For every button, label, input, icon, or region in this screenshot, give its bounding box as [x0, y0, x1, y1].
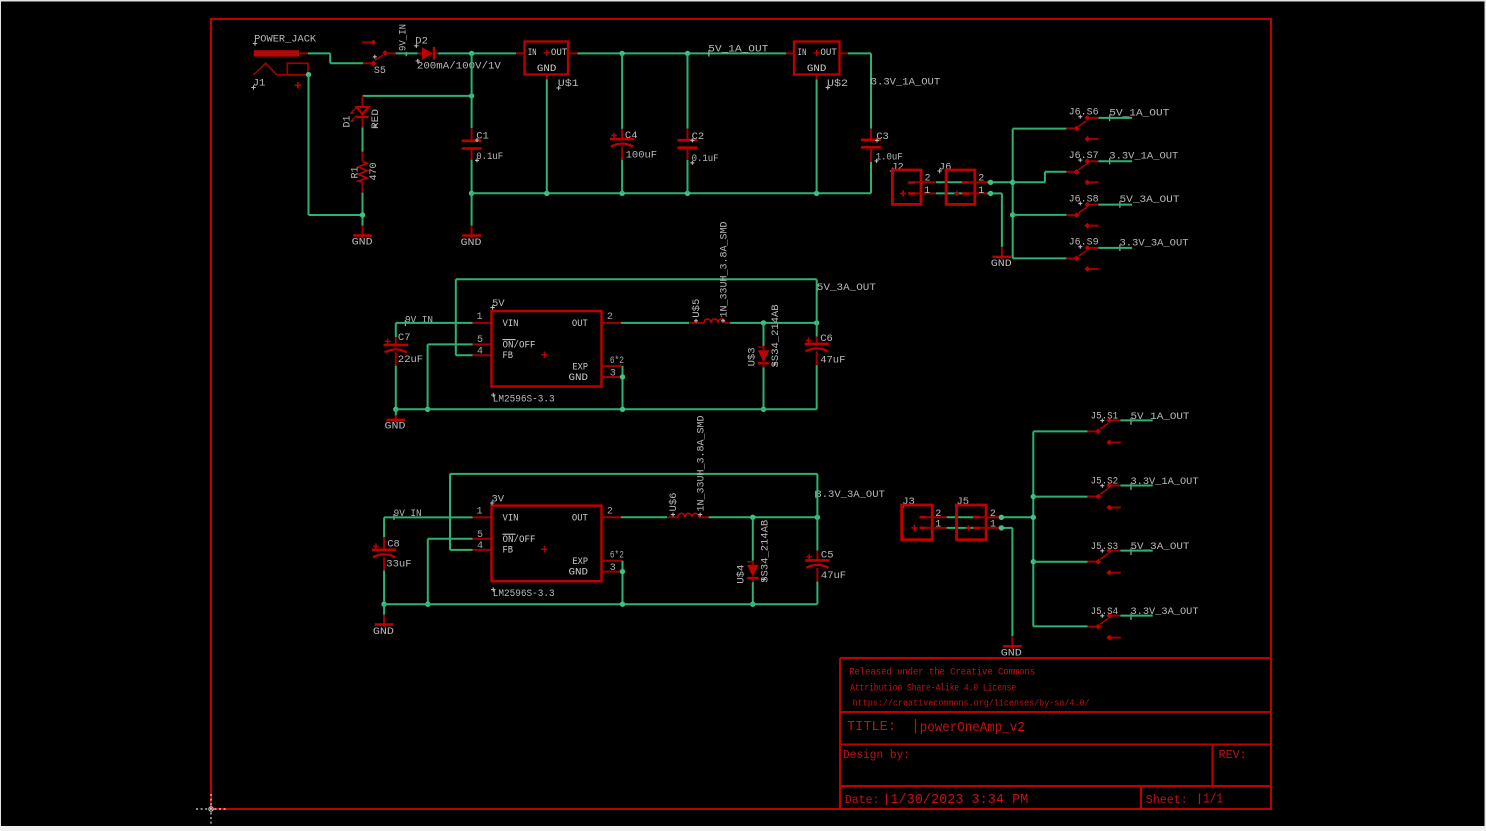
wire U$2 OUT to C3 branch [848, 52, 871, 54]
switch J6.S8 [1085, 202, 1091, 208]
junction rail at C1 [469, 191, 474, 196]
connector J3 box [902, 505, 933, 540]
connector J5 plus mark [966, 525, 971, 530]
wire U$1 GND column [546, 80, 548, 194]
svg-text:0.1uF: 0.1uF [476, 151, 503, 163]
wire U$2 GND column [816, 80, 818, 194]
svg-text:Sheet:: Sheet: [1146, 793, 1188, 807]
wire C8 to block2 ground rail [383, 570, 385, 604]
wire bus to S2 [1033, 496, 1087, 498]
svg-text:S5: S5 [374, 66, 386, 77]
connector J1 spring contact [254, 63, 307, 75]
svg-text:100uF: 100uF [626, 149, 658, 161]
wire U$1 OUT to U$2 IN [578, 52, 787, 54]
svg-text:R1: R1 [351, 166, 362, 178]
svg-text:2: 2 [607, 312, 613, 323]
switch J5.S2 [1106, 483, 1112, 489]
wire R1 to ground [362, 193, 364, 226]
wire block1 input cap branch [395, 323, 397, 337]
wire J5.S2 common [1120, 485, 1152, 487]
junction bus at S3 wire [1031, 559, 1036, 564]
svg-text:4: 4 [477, 346, 483, 357]
wire bus to S9 [1013, 257, 1067, 259]
svg-text:1: 1 [990, 519, 996, 530]
svg-text:IN: IN [528, 48, 537, 59]
svg-text:47uF: 47uF [821, 570, 846, 582]
svg-text:REV:: REV: [1219, 748, 1247, 762]
connector J2 box [892, 170, 921, 204]
junction J5 pin1 [999, 525, 1004, 530]
svg-text:1/30/2023 3:34 PM: 1/30/2023 3:34 PM [890, 793, 1028, 808]
svg-text:5V: 5V [492, 298, 505, 310]
svg-text:POWER_JACK: POWER_JACK [254, 34, 317, 46]
svg-text:1: 1 [477, 506, 483, 517]
junction top rail at C1 [469, 51, 474, 56]
wire block2 EXP to GND pin [622, 561, 624, 605]
wire block2 ON/OFF to ground [428, 538, 473, 540]
wire 9V_IN to U$7 VIN [396, 322, 473, 324]
wire LED branch [363, 95, 472, 97]
junction bus at J6 pin2 [1010, 180, 1015, 185]
diode U$4 branch wire [752, 517, 754, 560]
window edge top [0, 0, 1486, 2]
switch J6.S7 [1085, 158, 1091, 164]
svg-text:GND: GND [537, 64, 557, 75]
wire C1 column [471, 53, 473, 128]
junction top rail at C4 [619, 51, 624, 56]
wire 9V_IN to U$8 VIN [384, 516, 472, 518]
regulator U$2 box [794, 42, 840, 75]
ground GND block2 [383, 615, 385, 628]
resistor R1 [362, 152, 364, 161]
window edge right [1485, 0, 1486, 831]
capacitor C8 [383, 537, 385, 550]
switch J6.S9 [1085, 245, 1091, 251]
svg-text:D1: D1 [342, 115, 353, 127]
wire block2 ground rail [384, 603, 817, 605]
wire bus to S4 [1033, 625, 1087, 627]
junction bus at S2 wire [1031, 494, 1036, 499]
inductor U$5 [689, 322, 704, 324]
wire J5.S4 common [1120, 615, 1152, 617]
regulator U$7 LM2596S-3.3 box block1 [492, 311, 602, 387]
wire C6 to block1 rail [816, 365, 818, 409]
svg-text:0.1uF: 0.1uF [692, 153, 719, 165]
svg-text:FB: FB [503, 350, 514, 362]
wire J6.S8 common [1098, 204, 1132, 206]
wire bus to S7 [1013, 181, 1045, 183]
svg-text:2: 2 [935, 509, 941, 520]
bus wire top switch bank [1012, 129, 1014, 259]
svg-text:IN: IN [798, 48, 807, 59]
wire diode U$4 to block2 rail [752, 582, 754, 604]
junction block1 rail at EXP column [620, 407, 625, 412]
junction J6 pin2 [988, 180, 993, 185]
wire J6 pin1 to ground [987, 192, 1002, 194]
svg-text:OUT: OUT [572, 512, 588, 524]
svg-text:1: 1 [935, 519, 941, 530]
wire C7 to block1 ground rail [395, 366, 397, 410]
wire block2 FB sense [449, 474, 451, 550]
title value powerOneAmp_v2 [915, 719, 917, 733]
wire LED to R1 [362, 128, 364, 152]
wire J6.S6 common [1098, 117, 1132, 119]
svg-text:22uF: 22uF [398, 354, 423, 366]
svg-text:5V_1A_OUT: 5V_1A_OUT [708, 43, 768, 55]
wire C5 to block2 rail [816, 582, 818, 605]
regulator U$1 origin cross [544, 50, 550, 56]
junction block2 rail at ON/OFF [425, 602, 430, 607]
svg-text:C3: C3 [876, 131, 889, 143]
block2 EXP GND pin stubs [602, 560, 623, 562]
wire J5 pin1 to ground [999, 527, 1012, 529]
svg-text:1N_33UH_3.8A_SMD: 1N_33UH_3.8A_SMD [720, 222, 731, 318]
svg-text:Design by:: Design by: [843, 748, 910, 762]
wire C1 to rail [471, 160, 473, 194]
title block outline [840, 658, 1270, 808]
wire C4 to rail [621, 160, 623, 194]
svg-text:OUT: OUT [572, 318, 588, 330]
wire J5.S3 common [1120, 550, 1152, 552]
drawing frame [211, 19, 1271, 809]
svg-text:U$6: U$6 [668, 493, 680, 512]
junction J5 pin2 [999, 515, 1004, 520]
junction top rail at C2 [685, 51, 690, 56]
connector J1 barrel [254, 50, 299, 56]
svg-text:OUT: OUT [551, 48, 568, 59]
svg-text:J5.S3: J5.S3 [1091, 542, 1119, 553]
wire J6.S9 common [1098, 247, 1132, 249]
led D1 arrows [351, 108, 357, 121]
wire J6.S7 common [1098, 160, 1132, 162]
capacitor C4 [621, 129, 623, 139]
junction rail at U$1 GND [544, 191, 549, 196]
date value [886, 794, 888, 806]
svg-text:C5: C5 [821, 550, 834, 562]
ground GND at J6 [1001, 247, 1003, 260]
svg-text:2: 2 [978, 174, 984, 185]
wire jack plus leg [308, 75, 310, 215]
svg-text:LM2596S-3.3: LM2596S-3.3 [493, 393, 555, 405]
wire C2 to rail [687, 160, 689, 193]
svg-text:5V_3A_OUT: 5V_3A_OUT [817, 282, 876, 294]
switch J5.S3 [1106, 548, 1112, 554]
diode D2 [418, 52, 422, 54]
connector J3 pin 1 [919, 527, 926, 530]
window edge bottom strip [0, 826, 1486, 831]
svg-text:1: 1 [477, 312, 483, 323]
svg-text:6*2: 6*2 [610, 355, 624, 367]
svg-text:GND: GND [461, 238, 482, 249]
svg-text:J5.S4: J5.S4 [1091, 607, 1119, 618]
junction R1 ground [360, 212, 365, 217]
wire block2 feedback top rail [450, 473, 817, 475]
block2 OUT wire to inductor [602, 516, 622, 518]
wire C1 to ground [471, 193, 473, 225]
svg-text:1N_33UH_3.8A_SMD: 1N_33UH_3.8A_SMD [697, 416, 708, 512]
connector J6 box [946, 170, 975, 204]
connector J2 pin 1 [908, 192, 915, 195]
wire J5.S1 common [1120, 419, 1152, 421]
junction block1 GND pin [620, 374, 625, 379]
wire S5 to D2 [396, 52, 418, 54]
svg-text:Attribution Share-Alike 4.0 Li: Attribution Share-Alike 4.0 License [850, 682, 1016, 694]
junction block1 diode [761, 320, 766, 325]
svg-text:200mA/100V/1V: 200mA/100V/1V [417, 60, 502, 72]
junction at J1 output [306, 72, 311, 77]
svg-text:TITLE:: TITLE: [847, 719, 896, 735]
inductor U$6 [667, 516, 678, 518]
svg-text:J6.S6: J6.S6 [1069, 108, 1099, 119]
svg-text:U$2: U$2 [827, 78, 848, 90]
svg-text:470: 470 [369, 162, 380, 180]
wire jack to S5 [308, 52, 330, 54]
junction rail at C4 [619, 191, 624, 196]
junction bus at J5 pin2 [1031, 515, 1036, 520]
svg-text:GND: GND [991, 259, 1012, 270]
svg-text:U$1: U$1 [558, 78, 579, 90]
svg-text:VIN: VIN [503, 318, 519, 330]
svg-text:LM2596S-3.3: LM2596S-3.3 [493, 588, 555, 600]
svg-text:powerOneAmp_v2: powerOneAmp_v2 [920, 721, 1025, 736]
svg-text:J5.S2: J5.S2 [1091, 477, 1119, 488]
svg-text:GND: GND [352, 238, 373, 249]
ground GND under C1 [471, 226, 473, 238]
wire J2 to J6 pin2 [936, 181, 962, 183]
connector J6 plus mark [954, 191, 959, 196]
window edge left [0, 0, 1, 831]
diode U$3 branch wire [763, 323, 765, 346]
svg-text:J6.S9: J6.S9 [1069, 238, 1099, 249]
svg-text:3.3V_1A_OUT: 3.3V_1A_OUT [871, 77, 941, 89]
svg-text:6*2: 6*2 [610, 549, 624, 561]
regulator U$1 box [525, 42, 569, 75]
ground GND at J5 [1011, 636, 1013, 649]
wire J5 pin2 to bus [999, 516, 1033, 518]
junction rail at C2 [685, 191, 690, 196]
svg-text:Released under the Creative Co: Released under the Creative Commons [849, 667, 1035, 679]
wire block1 EXP to GND pin [622, 366, 624, 409]
connector J5 pin 1 [973, 527, 980, 530]
wire inductor to output node block2 [709, 516, 818, 518]
junction block2 GND pin [620, 569, 625, 574]
svg-text:GND: GND [569, 567, 589, 579]
wire block1 feedback top rail [456, 278, 817, 280]
ground GND under R1 [362, 226, 364, 238]
switch J5.S4 [1106, 613, 1112, 619]
ground GND block1 [395, 415, 397, 422]
svg-text:J6.S8: J6.S8 [1069, 194, 1099, 205]
svg-text:2: 2 [607, 506, 613, 517]
connector J1 plus mark [295, 82, 301, 88]
wire block2 input cap branch [383, 517, 385, 537]
svg-text:C8: C8 [387, 538, 400, 550]
wire bus to S1 [1033, 430, 1087, 432]
capacitor C5 [816, 551, 818, 561]
connector J3 plus mark [911, 525, 917, 531]
svg-text:3V: 3V [492, 493, 505, 505]
svg-text:U$3: U$3 [746, 347, 758, 366]
svg-text:SS34_214AB: SS34_214AB [760, 520, 771, 583]
switch S5 [362, 41, 371, 43]
sheet value [1199, 794, 1201, 805]
wire C4 column [621, 53, 623, 128]
junction J6 pin1 [988, 191, 993, 196]
svg-text:Date:: Date: [845, 793, 880, 807]
wire J3 to J5 pin2 [947, 516, 974, 518]
svg-text:GND: GND [373, 627, 394, 638]
svg-text:33uF: 33uF [386, 559, 411, 571]
wire ground rail [472, 192, 871, 194]
svg-text:https://creativecommons.org/li: https://creativecommons.org/licenses/by-… [853, 697, 1090, 708]
wire bus to S6 [1013, 128, 1067, 130]
wire D2 to U$1 IN [438, 52, 516, 54]
wire bus to S3 [1033, 561, 1087, 563]
connector J6 pin 2 [962, 181, 969, 184]
svg-text:1/1: 1/1 [1203, 793, 1223, 808]
connector J2 plus mark [900, 190, 906, 196]
junction block2 rail at C8 [381, 602, 386, 607]
junction block2 rail at diode [750, 602, 755, 607]
svg-text:GND: GND [807, 64, 827, 75]
capacitor C2 [687, 129, 689, 141]
junction block2 diode [750, 515, 755, 520]
junction block1 rail at ON/OFF [425, 407, 430, 412]
svg-text:3.3V_3A_OUT: 3.3V_3A_OUT [815, 489, 885, 501]
capacitor C6 [816, 337, 818, 344]
svg-text:2: 2 [925, 174, 931, 185]
wire block1 ground rail [396, 408, 817, 410]
block1 EXP GND pin stubs [602, 365, 623, 367]
svg-text:GND: GND [569, 372, 589, 384]
svg-text:U$5: U$5 [691, 299, 703, 318]
svg-text:2: 2 [990, 509, 996, 520]
bus wire bottom switch bank [1032, 431, 1034, 626]
wire C2 column [687, 53, 689, 128]
wire bus to S8 [1013, 214, 1067, 216]
connector J5 pin 2 [973, 516, 980, 519]
wire inductor to output node block1 [730, 322, 817, 324]
connector J3 pin 2 [919, 516, 926, 519]
junction bus at S8 wire [1010, 212, 1015, 217]
wire J2 to J6 pin1 [936, 192, 962, 194]
svg-text:9V_IN: 9V_IN [405, 315, 433, 326]
junction block1 rail at diode [761, 407, 766, 412]
wire J3 to J5 pin1 [947, 527, 974, 529]
svg-text:C4: C4 [625, 130, 638, 142]
connector J1 tip contact [287, 63, 308, 75]
svg-text:J5.S1: J5.S1 [1091, 412, 1119, 423]
capacitor C1 [471, 128, 473, 141]
svg-text:1: 1 [924, 186, 930, 197]
svg-text:VIN: VIN [503, 512, 519, 524]
regulator U$8 LM2596S-3.3 box block2 [492, 506, 602, 582]
svg-text:C1: C1 [476, 130, 489, 142]
junction block2 output bus [815, 515, 820, 520]
origin marker cross [196, 808, 226, 810]
wire block1 output bus [816, 279, 818, 336]
svg-text:SS34_214AB: SS34_214AB [771, 304, 782, 367]
block1 OUT wire to inductor [602, 322, 622, 324]
switch J5.S1 [1106, 418, 1112, 424]
svg-text:9V_IN: 9V_IN [399, 24, 410, 51]
regulator U$2 origin cross [813, 50, 819, 56]
junction block1 output bus [814, 320, 819, 325]
junction rail at U$2 GND [814, 191, 819, 196]
svg-text:5: 5 [477, 530, 483, 541]
svg-text:47uF: 47uF [820, 354, 845, 366]
svg-text:U$4: U$4 [736, 565, 748, 584]
svg-text:C6: C6 [820, 333, 833, 345]
diode U$3 [763, 346, 765, 350]
svg-text:C7: C7 [398, 332, 411, 344]
connector J6 pin 1 [962, 192, 969, 195]
wire block2 output bus [816, 474, 818, 551]
svg-text:GND: GND [385, 422, 406, 433]
wire block1 ON/OFF to ground [428, 343, 473, 345]
block2 origin cross [541, 546, 547, 552]
svg-text:4: 4 [477, 541, 483, 552]
svg-text:5: 5 [477, 335, 483, 346]
svg-text:FB: FB [503, 544, 514, 556]
svg-text:1: 1 [978, 186, 984, 197]
junction block1 rail at C7 [393, 407, 398, 412]
svg-text:C2: C2 [692, 131, 705, 143]
junction block2 rail at EXP column [620, 602, 625, 607]
connector J2 pin 2 [908, 181, 915, 184]
svg-text:OUT: OUT [820, 48, 837, 59]
wire block1 FB sense [455, 279, 457, 355]
capacitor C3 [870, 129, 872, 140]
junction LED branch at C1 column [469, 93, 474, 98]
connector J5 box [957, 505, 987, 540]
capacitor C7 [395, 337, 397, 345]
diode U$4 [752, 561, 754, 565]
wire J6 pin2 to bus [987, 181, 1013, 183]
svg-text:J6.S7: J6.S7 [1069, 151, 1099, 162]
switch J6.S6 [1085, 115, 1091, 121]
led D1 [362, 96, 364, 107]
wire diode U$3 to block1 rail [763, 368, 765, 410]
block1 origin cross [541, 352, 547, 358]
wire C3 to rail [870, 162, 872, 193]
